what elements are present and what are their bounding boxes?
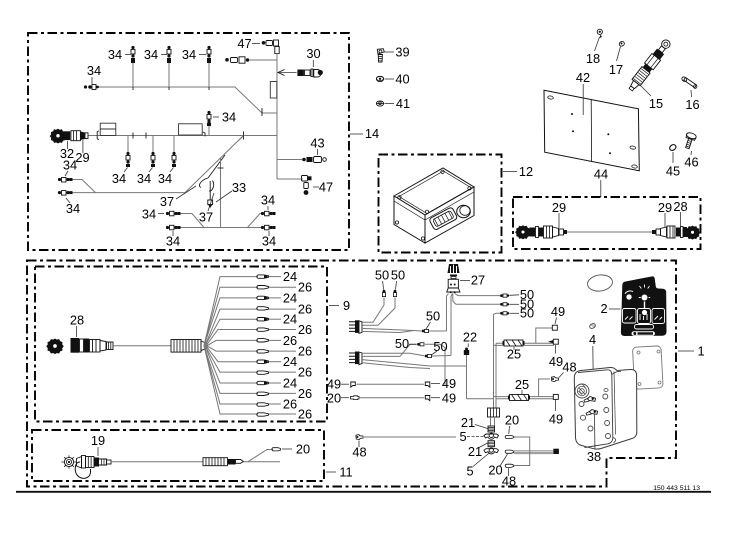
svg-text:30: 30 [306, 46, 320, 61]
svg-text:34: 34 [112, 171, 126, 186]
wire 50 row3 to vertical [494, 306, 535, 321]
svg-text:26: 26 [298, 280, 312, 295]
nut 41 [376, 96, 410, 111]
wire drop x209 [182, 46, 211, 87]
screw 18 [586, 29, 603, 66]
bolt 48 upper [539, 360, 577, 397]
cable 9 ribbed boot [171, 340, 207, 353]
pin 50 b [391, 268, 405, 297]
svg-text:37: 37 [199, 210, 213, 225]
wire 20 branch [244, 442, 311, 462]
cable 44 left connector [516, 226, 567, 239]
leader 2 [600, 301, 620, 316]
svg-text:50: 50 [433, 339, 447, 354]
svg-text:26: 26 [298, 406, 312, 421]
leader 28 right [673, 199, 687, 226]
svg-text:29: 29 [75, 150, 89, 165]
cable 11 ribbed connector [203, 458, 244, 466]
svg-text:48: 48 [502, 474, 516, 489]
svg-text:34: 34 [158, 171, 172, 186]
wires fork upper [362, 298, 447, 333]
svg-text:26: 26 [283, 333, 297, 348]
svg-text:49: 49 [551, 304, 565, 319]
svg-text:5: 5 [466, 464, 473, 479]
svg-text:24: 24 [283, 290, 297, 305]
node join diag upper [261, 108, 263, 116]
cable 9 dashed frame [35, 267, 327, 422]
svg-text:20: 20 [296, 442, 310, 457]
labels 24 26 rows [269, 269, 312, 421]
connector 22 [463, 330, 494, 399]
leader 12 [503, 164, 533, 179]
svg-text:34: 34 [144, 47, 158, 62]
connector 34 bottom left bottom [166, 225, 181, 248]
oring small [589, 323, 596, 330]
extension cable 44 dashed frame [513, 197, 701, 249]
connector 32 29 assembly [50, 129, 89, 165]
gasket oval [587, 273, 614, 292]
leader 9 [329, 298, 350, 313]
wire bottom cluster [180, 214, 261, 228]
svg-text:25: 25 [515, 377, 529, 392]
plug 48 low [502, 437, 530, 489]
bolt 46 [683, 132, 699, 170]
cable 11 dashed frame [32, 430, 324, 481]
svg-text:4: 4 [589, 332, 596, 347]
svg-text:46: 46 [684, 155, 698, 170]
wire 27 left pins down [447, 294, 453, 356]
harness 14 dashed frame [28, 33, 349, 250]
svg-text:19: 19 [91, 433, 105, 448]
component box2 on bus [179, 124, 206, 137]
wire pair vertical [494, 317, 497, 409]
cable 19 plug body [75, 456, 111, 479]
svg-text:20: 20 [488, 463, 502, 478]
connector 47 bottom [277, 176, 333, 195]
pin 50 d [395, 336, 424, 351]
svg-text:34: 34 [66, 201, 80, 216]
svg-text:34: 34 [137, 171, 151, 186]
svg-text:26: 26 [283, 396, 297, 411]
wire 27 right pin to 50 row1 [455, 287, 534, 302]
leader 4 [589, 332, 596, 396]
svg-text:28: 28 [673, 199, 687, 214]
svg-text:27: 27 [471, 273, 485, 288]
svg-text:11: 11 [339, 465, 352, 480]
wire drop below bus x174 [158, 136, 176, 187]
svg-text:24: 24 [283, 354, 297, 369]
svg-text:38: 38 [587, 449, 601, 464]
pin 17 [609, 41, 625, 77]
bracket box 38 [574, 367, 637, 449]
footer part number [653, 485, 700, 492]
svg-text:29: 29 [658, 200, 672, 215]
wire middle bus [88, 132, 277, 141]
svg-text:41: 41 [396, 96, 410, 111]
valve 21 lower [468, 441, 495, 459]
wire pair to relay 25 lower [494, 397, 554, 399]
gasket plate rear [632, 346, 663, 389]
cable 9 line [113, 345, 171, 347]
wire vertical x220 [218, 158, 224, 228]
svg-text:15: 15 [649, 96, 663, 111]
leader 44 [594, 167, 608, 198]
bolt 4b on bracket [586, 410, 598, 416]
nut 5 upper [459, 429, 498, 444]
footer rule [16, 491, 711, 493]
svg-text:37: 37 [160, 194, 174, 209]
svg-text:17: 17 [609, 62, 623, 77]
svg-text:26: 26 [298, 365, 312, 380]
svg-text:43: 43 [310, 136, 324, 151]
svg-text:150 443 511 13: 150 443 511 13 [653, 485, 700, 492]
relay 25 upper [503, 340, 525, 362]
cable 44 line [567, 231, 652, 233]
actuator 15 [626, 38, 673, 111]
svg-text:50: 50 [520, 306, 534, 321]
leader 29 left [552, 200, 566, 228]
nut 5 lower [466, 448, 498, 479]
wire drop below bus x128 [112, 136, 130, 187]
svg-text:34: 34 [142, 207, 156, 222]
svg-text:50: 50 [395, 336, 409, 351]
svg-text:28: 28 [70, 313, 84, 328]
svg-text:50: 50 [426, 309, 440, 324]
svg-text:34: 34 [63, 158, 77, 173]
wire 27 to 50 row2 [453, 294, 534, 312]
cable 44 right connector [652, 226, 700, 239]
svg-text:49: 49 [549, 412, 563, 427]
wires fork lower [362, 344, 467, 385]
svg-text:21: 21 [468, 444, 482, 459]
svg-text:5: 5 [459, 429, 466, 444]
svg-text:48: 48 [352, 445, 366, 460]
connector 28 star [47, 313, 84, 354]
svg-text:34: 34 [108, 47, 122, 62]
svg-text:24: 24 [283, 269, 297, 284]
svg-text:1: 1 [697, 344, 704, 359]
svg-text:49: 49 [549, 354, 563, 369]
ECU box drawing [394, 168, 474, 243]
svg-text:34: 34 [261, 193, 275, 208]
svg-text:45: 45 [666, 164, 680, 179]
connector 34 bottom right top [261, 193, 276, 216]
valve 21 upper [461, 415, 495, 432]
component relay box on bus [97, 123, 116, 140]
leader 1 [678, 344, 705, 359]
connector row2 left of x277 [225, 57, 277, 63]
svg-text:22: 22 [463, 330, 477, 345]
terminal 49 sq3 [549, 394, 563, 426]
plate 42 [544, 70, 639, 171]
wire upper bus [98, 84, 277, 113]
svg-text:18: 18 [586, 51, 600, 66]
plug 20 mid cable [488, 449, 559, 478]
connector 43 [277, 136, 326, 163]
svg-text:25: 25 [507, 347, 521, 362]
connector 28 barrel [71, 338, 114, 353]
label 37 b [199, 193, 214, 225]
terminal 20 row left [327, 390, 456, 405]
svg-text:34: 34 [182, 47, 196, 62]
nut 40 [376, 72, 409, 87]
plug 20 top [505, 413, 519, 439]
connector 34 left branch upper [58, 158, 96, 193]
svg-text:24: 24 [283, 375, 297, 390]
pin 16 [681, 76, 700, 112]
terminals 24 26 [257, 275, 269, 416]
oring 45 [666, 143, 680, 178]
pin 50 e [425, 339, 448, 358]
label 37 a [160, 186, 196, 209]
svg-text:24: 24 [283, 312, 297, 327]
pin 50 c on fork line [422, 309, 441, 333]
terminal 49 sq1 [536, 304, 565, 343]
svg-text:26: 26 [298, 302, 312, 317]
svg-text:44: 44 [594, 167, 608, 182]
svg-text:20: 20 [505, 413, 519, 428]
connector 34 bottom left top [142, 207, 181, 222]
wire drop x169 [144, 46, 171, 87]
svg-text:26: 26 [298, 322, 312, 337]
wire fan-out [204, 277, 258, 414]
svg-text:40: 40 [395, 72, 409, 87]
leader 14 [350, 126, 379, 141]
svg-text:48: 48 [562, 360, 576, 375]
leader 19 [91, 433, 105, 456]
control panel 2 [621, 276, 667, 336]
leader 38 [587, 414, 601, 464]
screw 39 [377, 45, 409, 63]
svg-text:34: 34 [87, 63, 101, 78]
svg-text:50: 50 [391, 268, 405, 283]
wire stub up x209 connector 34 [207, 110, 236, 136]
svg-text:50: 50 [375, 268, 389, 283]
svg-text:42: 42 [576, 70, 590, 85]
svg-text:34: 34 [166, 234, 180, 249]
svg-text:9: 9 [343, 298, 350, 313]
cable 19 ring connector [61, 455, 76, 468]
svg-text:49: 49 [442, 376, 456, 391]
fuse rect on x277 [270, 82, 277, 99]
connector 47 top [237, 36, 279, 54]
svg-text:26: 26 [298, 386, 312, 401]
bolt 48 mid row [352, 435, 456, 460]
svg-text:12: 12 [519, 164, 533, 179]
assembly 1 dashed outline [27, 261, 676, 487]
terminal 49 sq2 [548, 339, 563, 369]
wire pair to relay 25 upper [494, 343, 555, 345]
relay 25 lower [508, 377, 530, 401]
svg-text:21: 21 [461, 415, 475, 430]
svg-text:14: 14 [365, 126, 379, 141]
wire branch 37 [199, 155, 225, 191]
svg-text:2: 2 [600, 301, 607, 316]
svg-text:47: 47 [237, 36, 251, 51]
connector 27 [447, 264, 485, 293]
svg-text:47: 47 [319, 180, 333, 195]
connector 34 left branch lower [58, 191, 80, 216]
pin 50 a [375, 268, 389, 297]
connector 34 end of upper bus [84, 63, 101, 90]
svg-text:34: 34 [262, 234, 276, 249]
cable 11 line [111, 461, 203, 463]
connector 34 bottom right bottom [261, 225, 276, 248]
connector 33 [208, 180, 246, 208]
svg-text:34: 34 [222, 110, 236, 125]
svg-text:20: 20 [327, 391, 341, 406]
bolt 4a on bracket [584, 397, 596, 403]
svg-text:29: 29 [552, 200, 566, 215]
control box 12 dashed frame [379, 155, 502, 253]
fork upper [349, 320, 362, 333]
fork lower [349, 352, 362, 365]
leader 11 [326, 465, 353, 480]
svg-text:49: 49 [442, 390, 456, 405]
wire big diagonal [72, 136, 244, 193]
svg-text:33: 33 [232, 180, 246, 195]
svg-text:16: 16 [685, 97, 699, 112]
svg-text:49: 49 [327, 377, 341, 392]
wire drop below bus x153 [137, 136, 155, 187]
svg-text:39: 39 [395, 45, 409, 60]
wire vertical main x277 [276, 53, 278, 179]
terminal 49 row left [327, 376, 456, 392]
connector 30 with arrow [278, 46, 323, 77]
leader 29 right [658, 200, 672, 227]
svg-text:26: 26 [298, 344, 312, 359]
manifold block [488, 408, 500, 426]
wire drop x133 [108, 46, 135, 87]
